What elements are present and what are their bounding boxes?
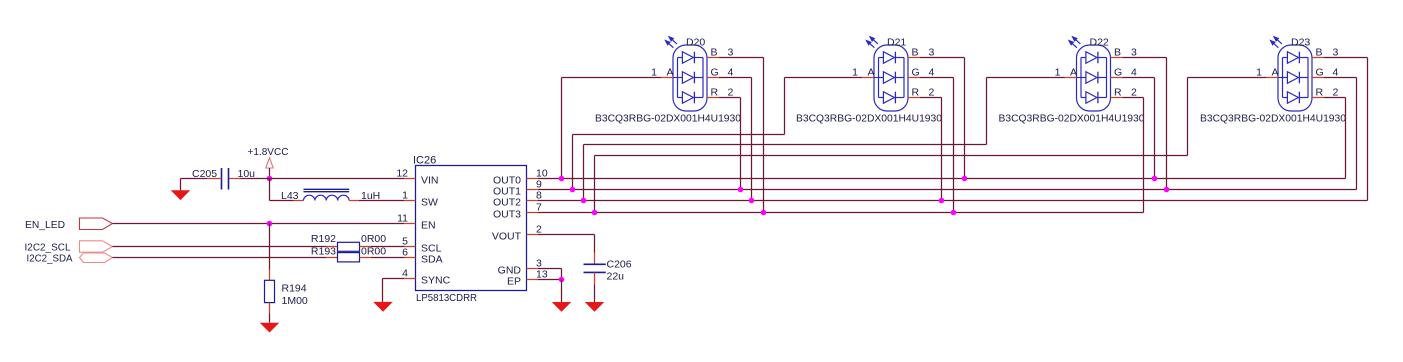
diode in D22 row <box>1081 57 1086 59</box>
svg-text:R: R <box>711 87 719 99</box>
svg-text:12: 12 <box>396 168 408 180</box>
svg-text:R: R <box>1316 87 1324 99</box>
svg-text:B3CQ3RBG-02DX001H4U1930: B3CQ3RBG-02DX001H4U1930 <box>999 114 1145 125</box>
LED D21 pin A stub <box>862 77 874 79</box>
svg-text:11: 11 <box>397 213 408 225</box>
LED D22 cathode stub R <box>1111 97 1123 99</box>
svg-text:B3CQ3RBG-02DX001H4U1930: B3CQ3RBG-02DX001H4U1930 <box>595 114 741 125</box>
svg-text:A: A <box>667 67 674 79</box>
wire VOUT to C206 <box>538 234 595 236</box>
resistor R192 body <box>338 242 360 251</box>
diode in D21 row <box>879 97 884 99</box>
svg-text:0R00: 0R00 <box>361 246 386 258</box>
diode in D21 row <box>879 77 884 79</box>
inductor L43 <box>304 195 350 200</box>
svg-text:1: 1 <box>651 67 657 79</box>
LED D22 pin A stub <box>1065 77 1077 79</box>
node EN / R194 junction <box>267 221 273 227</box>
wire D23 A to OUT3 bus <box>1188 77 1267 79</box>
LED D20 pin A stub <box>661 77 673 79</box>
LED D21 cathode stub B <box>908 57 920 59</box>
resistor R194 body <box>265 280 275 302</box>
LED D23 anode bus <box>1282 58 1284 98</box>
svg-text:B: B <box>1316 47 1323 59</box>
diode in D22 row <box>1081 97 1086 99</box>
IC IC26 LP5813CDRR box <box>416 166 527 291</box>
svg-text:13: 13 <box>536 269 548 281</box>
LED D22 emission arrows <box>1072 37 1080 44</box>
svg-text:1: 1 <box>1256 67 1262 79</box>
port I2C2_SDA flag <box>80 253 113 263</box>
svg-text:EP: EP <box>507 276 521 288</box>
svg-text:G: G <box>711 67 719 79</box>
svg-text:IC26: IC26 <box>413 155 436 167</box>
svg-text:R192: R192 <box>311 233 336 245</box>
LED D22 anode bus <box>1080 58 1082 98</box>
wire D20 G to OUT2 <box>719 77 752 79</box>
svg-text:+1.8VCC: +1.8VCC <box>248 146 289 158</box>
svg-text:B3CQ3RBG-02DX001H4U1930: B3CQ3RBG-02DX001H4U1930 <box>1200 114 1346 125</box>
pin stub right <box>527 178 539 180</box>
svg-text:B3CQ3RBG-02DX001H4U1930: B3CQ3RBG-02DX001H4U1930 <box>796 114 942 125</box>
wire EN junction down to R194 <box>269 224 271 270</box>
power +1.8VCC symbol <box>266 158 273 168</box>
svg-text:R: R <box>912 87 920 99</box>
svg-text:D21: D21 <box>887 37 906 49</box>
svg-text:B: B <box>912 47 919 59</box>
LED D23 pin A stub <box>1266 77 1278 79</box>
LED D23 cathode bus <box>1307 58 1309 98</box>
wire bus branch to OUT1 <box>572 135 574 190</box>
diode in D20 row <box>678 77 683 79</box>
wire D20 R to OUT1 <box>719 97 741 99</box>
LED D21 anode bus <box>878 58 880 98</box>
svg-text:A: A <box>1272 67 1279 79</box>
wire D21 G to OUT3 <box>920 77 954 79</box>
wire vcc down to inductor <box>269 179 271 201</box>
pin stub right <box>527 279 539 281</box>
node EP junction <box>559 277 565 283</box>
wire EP down to ground <box>561 280 563 303</box>
wire bus OUT3 upper horizontal <box>595 155 1188 157</box>
svg-text:R193: R193 <box>311 246 336 258</box>
svg-text:VOUT: VOUT <box>492 231 522 243</box>
pin stub right <box>527 189 539 191</box>
pin stub left <box>404 246 416 248</box>
diode in D23 row <box>1283 77 1288 79</box>
pin stub left <box>404 200 416 202</box>
wire D20 A to OUT0 <box>562 77 662 79</box>
svg-text:2: 2 <box>536 224 542 236</box>
wire D21 R to OUT2 <box>920 97 942 99</box>
svg-text:B: B <box>711 47 718 59</box>
svg-text:4: 4 <box>402 268 408 280</box>
svg-text:R: R <box>1114 87 1122 99</box>
LED D21 emission arrows <box>870 37 878 44</box>
diode in D23 row <box>1283 57 1288 59</box>
svg-text:VIN: VIN <box>421 175 439 187</box>
wire SYNC pin to ground <box>383 278 405 280</box>
inductor L43 core bars <box>304 188 350 190</box>
diode in D22 row <box>1081 77 1086 79</box>
wire net OUT2 horizontal <box>538 200 1368 202</box>
svg-text:B: B <box>1114 47 1121 59</box>
wire to L43 <box>270 200 294 202</box>
diode in D20 row <box>678 97 683 99</box>
LED D22 cathode stub G <box>1111 77 1123 79</box>
pin stub left <box>404 178 416 180</box>
wire GND pin over to EP column <box>538 268 562 270</box>
LED D20 cathode bus <box>702 58 704 98</box>
wire down to ground <box>180 179 182 191</box>
LED D22 cathode stub B <box>1111 57 1123 59</box>
wire bus OUT2 upper horizontal <box>584 144 987 146</box>
wire SCL to R192 <box>113 246 327 248</box>
LED D23 cathode stub R <box>1312 97 1324 99</box>
wire vcc junction to VIN pin <box>270 178 405 180</box>
LED D21 cathode stub G <box>908 77 920 79</box>
svg-text:L43: L43 <box>281 190 299 202</box>
svg-text:1: 1 <box>852 67 858 79</box>
wire C206 to ground <box>594 272 596 284</box>
wire C205 to vcc junction <box>241 178 270 180</box>
LED D23 emission arrows <box>1274 37 1282 44</box>
capacitor C206 plates <box>584 263 606 265</box>
wire EN_LED to EN pin <box>113 223 405 225</box>
LED D20 emission arrows <box>669 37 677 44</box>
svg-text:0R00: 0R00 <box>361 233 386 245</box>
LED D23 cathode stub G <box>1312 77 1324 79</box>
port EN_LED flag <box>80 218 113 230</box>
svg-text:C206: C206 <box>607 259 632 271</box>
svg-text:8: 8 <box>536 190 542 202</box>
wire D22 A to OUT2 bus <box>987 77 1065 79</box>
svg-text:G: G <box>1316 67 1324 79</box>
wire D23 G to OUT1 end <box>1324 77 1357 79</box>
LED D20 anode bus <box>677 58 679 98</box>
LED D20 cathode stub G <box>707 77 719 79</box>
LED D20 cathode stub R <box>707 97 719 99</box>
port I2C2_SCL flag <box>80 241 113 252</box>
svg-text:D22: D22 <box>1090 37 1109 49</box>
svg-text:EN: EN <box>421 220 436 232</box>
LED D20 package outline <box>673 45 707 111</box>
diode in D21 row <box>879 57 884 59</box>
wire R192 to SCL pin <box>360 246 372 248</box>
ground under C205 <box>171 190 191 200</box>
LED D21 cathode bus <box>903 58 905 98</box>
svg-text:22u: 22u <box>607 271 625 283</box>
ground under R194 <box>260 323 280 333</box>
pin stub right <box>527 268 539 270</box>
wire R194 to ground <box>269 303 271 314</box>
wire D22 G to OUT0 <box>1123 77 1155 79</box>
pin stub left <box>404 223 416 225</box>
ground under C206 <box>585 302 605 312</box>
node vcc junction <box>267 176 273 182</box>
wire D22 B to OUT1 <box>1123 57 1167 59</box>
wire net OUT3 horizontal <box>538 212 1144 214</box>
wire vcc stub <box>269 168 271 179</box>
svg-text:1: 1 <box>402 190 408 202</box>
svg-text:LP5813CDRR: LP5813CDRR <box>416 292 477 304</box>
ground under EP <box>552 302 572 312</box>
LED D20 cathode stub B <box>707 57 719 59</box>
pin stub left <box>404 278 416 280</box>
wire bus branch to OUT2 <box>583 145 585 201</box>
pin stub left <box>404 257 416 259</box>
diode in D23 row <box>1283 97 1288 99</box>
capacitor C205 plates <box>221 168 223 190</box>
diode in D20 row <box>678 57 683 59</box>
svg-text:R194: R194 <box>282 283 307 295</box>
wire bus branch to OUT3 <box>594 156 596 213</box>
svg-text:1M00: 1M00 <box>282 295 308 307</box>
LED D21 package outline <box>874 45 908 111</box>
resistor R193 body <box>338 253 360 262</box>
svg-text:D20: D20 <box>686 37 705 49</box>
pin stub right <box>527 212 539 214</box>
svg-text:OUT2: OUT2 <box>493 197 521 209</box>
pin stub right <box>527 200 539 202</box>
svg-text:A: A <box>1070 67 1077 79</box>
svg-text:D23: D23 <box>1291 37 1310 49</box>
wire D23 B to OUT2 end <box>1324 57 1368 59</box>
svg-text:I2C2_SDA: I2C2_SDA <box>27 253 73 265</box>
svg-text:SDA: SDA <box>421 254 443 266</box>
wire D22 R to OUT3 end <box>1123 97 1144 99</box>
wire bus OUT1 upper horizontal <box>573 134 785 136</box>
wire D21 B to OUT0 <box>920 57 965 59</box>
LED D23 cathode stub B <box>1312 57 1324 59</box>
wire D20 B to OUT3 <box>719 57 764 59</box>
wire SDA to R193 <box>113 257 327 259</box>
wire net OUT0 horizontal <box>538 178 1346 180</box>
svg-text:6: 6 <box>402 247 408 259</box>
svg-text:1: 1 <box>1055 67 1061 79</box>
LED D23 package outline <box>1278 45 1312 111</box>
ground under SYNC <box>373 302 393 312</box>
svg-text:SW: SW <box>421 197 438 209</box>
wire net OUT1 horizontal <box>538 189 1357 191</box>
wire L43 to SW pin <box>349 200 359 202</box>
svg-text:OUT3: OUT3 <box>493 209 521 221</box>
wire D23 R to OUT0 end <box>1324 97 1346 99</box>
wire D21 A to OUT1 bus <box>785 77 863 79</box>
svg-text:7: 7 <box>536 202 542 214</box>
wire R193 to SDA pin <box>360 257 372 259</box>
LED D22 cathode bus <box>1106 58 1108 98</box>
wire C205 left <box>207 178 222 180</box>
svg-text:EN_LED: EN_LED <box>25 219 65 231</box>
LED D21 cathode stub R <box>908 97 920 99</box>
svg-text:10u: 10u <box>238 168 256 180</box>
pin stub right <box>527 234 539 236</box>
svg-text:G: G <box>912 67 920 79</box>
svg-text:G: G <box>1114 67 1122 79</box>
LED D22 package outline <box>1077 45 1111 111</box>
svg-text:SYNC: SYNC <box>421 275 451 287</box>
wire EP pin <box>538 279 562 281</box>
svg-text:A: A <box>868 67 875 79</box>
